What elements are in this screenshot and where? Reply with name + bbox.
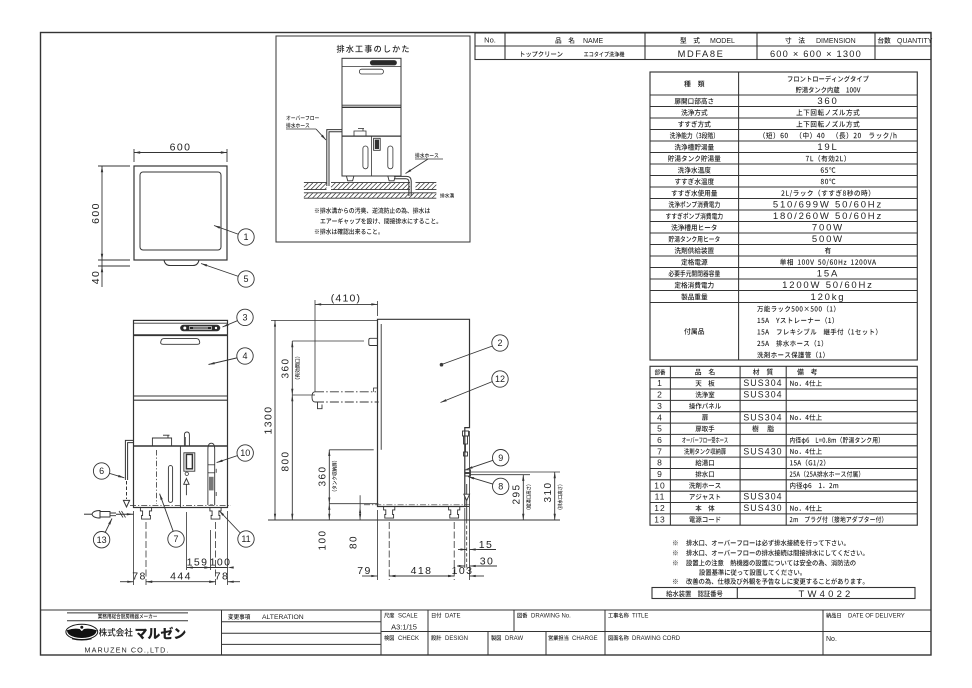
svg-text:360: 360 [318,466,329,487]
maruzen logo block [67,612,188,614]
front pump window [184,453,195,471]
side drain down arrow [466,484,468,520]
svg-text:SUS304: SUS304 [743,390,782,400]
svg-text:QUANTITY: QUANTITY [897,38,933,45]
front top bracket [152,438,171,446]
svg-text:TW4022: TW4022 [798,589,853,600]
svg-text:SUS430: SUS430 [743,446,782,456]
dim 40 [101,260,103,287]
front dims 78/444/78 [133,511,135,585]
maruzen oval face logo [66,624,98,639]
title block [41,609,932,611]
plan view inner panel [140,172,221,250]
front door bottom lines [134,395,228,397]
front right pipe assembly [208,443,215,505]
svg-text:12: 12 [495,374,505,384]
svg-text:MODEL: MODEL [710,38,735,45]
balloon 8 [468,477,501,487]
svg-text:2: 2 [497,338,502,348]
balloon 11 [219,511,246,540]
svg-text:295: 295 [512,484,523,505]
balloon 12 [441,382,493,403]
svg-text:80: 80 [349,535,360,549]
balloon 9 [467,458,501,470]
side door hook [318,402,323,409]
mini door bottom lines [342,104,401,106]
svg-text:MARUZEN CO.,LTD.: MARUZEN CO.,LTD. [85,646,170,655]
front door handle [161,339,200,345]
dim 600 left [98,165,130,167]
mini top bracket [354,131,366,136]
svg-text:3: 3 [657,401,663,411]
specification table [650,72,917,360]
svg-text:CHECK: CHECK [398,636,419,642]
svg-text:7: 7 [173,534,178,544]
balloon 4 [209,356,246,365]
svg-text:3: 3 [242,313,247,323]
svg-text:19L: 19L [817,142,838,153]
notes [673,540,678,545]
front dims 159/100 [186,512,188,570]
svg-text:ALTERATION: ALTERATION [262,614,304,621]
svg-text:SUS304: SUS304 [743,412,782,422]
svg-text:No.: No. [826,636,837,643]
svg-text:600 × 600 × 1300: 600 × 600 × 1300 [770,49,862,59]
balloon 6 [102,471,125,478]
svg-text:100: 100 [318,530,329,551]
svg-text:15: 15 [479,539,493,551]
side bottom chain line [364,504,470,506]
mini drain pipe [394,176,411,190]
svg-text:15A: 15A [817,269,839,280]
mini overflow hose [327,130,342,186]
front feet [140,508,151,520]
svg-text:A3:1/15: A3:1/15 [391,623,417,632]
svg-text:444: 444 [170,571,192,583]
dims 15/30 [464,508,466,568]
svg-text:12: 12 [654,503,665,513]
svg-text:78: 78 [132,571,146,583]
svg-text:30: 30 [480,555,494,567]
svg-text:8: 8 [498,482,503,492]
svg-text:SCALE: SCALE [398,614,418,620]
balloon 7 [160,494,176,539]
svg-text:CHARGE: CHARGE [572,636,598,642]
svg-text:DRAW: DRAW [505,636,523,642]
front handle slot [168,466,172,503]
svg-text:5: 5 [243,274,248,284]
svg-text:TITLE: TITLE [632,614,648,620]
svg-text:SUS304: SUS304 [743,492,782,502]
side feet [384,507,395,519]
floor hatch lower band [304,193,436,198]
svg-text:(410): (410) [331,293,362,305]
floor hatch upper band [304,183,327,190]
side view body [378,319,470,506]
front left door centerline [155,450,157,504]
balloon 1 [214,226,246,238]
mini cabinet doors [370,136,372,176]
drain instruction box [276,36,470,242]
power cord and plug [116,513,134,515]
side opening top line [292,340,364,342]
side recess fittings [463,431,469,436]
plan view bottom tab [164,260,199,266]
svg-text:310: 310 [543,482,554,503]
svg-text:360: 360 [817,96,838,107]
svg-text:DRAWING No.: DRAWING No. [531,614,571,620]
front riser pipe [184,432,189,446]
svg-text:DIMENSION: DIMENSION [816,38,856,45]
parts table [650,366,917,525]
header table (name/model/dimension) [475,33,931,60]
svg-text:13: 13 [654,514,665,524]
svg-text:10: 10 [654,480,665,490]
dim 600 top [133,149,135,162]
svg-text:11: 11 [241,534,250,544]
side door catch right [374,388,378,392]
balloon 13 [102,519,112,540]
svg-text:418: 418 [411,565,433,577]
front thick divider [134,334,228,336]
svg-text:13: 13 [97,535,107,545]
front bottom chain line [130,504,231,506]
svg-text:1300: 1300 [263,406,275,435]
svg-text:103: 103 [452,565,474,577]
svg-text:2: 2 [657,390,663,400]
svg-text:800: 800 [281,451,292,472]
dim 360 tank door [329,449,373,451]
svg-text:1: 1 [243,232,248,242]
svg-text:1: 1 [657,378,663,388]
dim 360 opening [292,394,315,396]
side open door band [315,391,376,393]
svg-text:MDFA8E: MDFA8E [678,49,725,59]
mini door handle [359,69,383,74]
svg-text:DATE OF DELIVERY: DATE OF DELIVERY [848,614,905,620]
front view body [134,320,228,507]
svg-text:9: 9 [657,469,663,479]
side bottom dims 79/418/103 [377,510,379,580]
side drain stub [465,470,471,473]
dim 100 [328,504,330,520]
dim 800 [291,395,293,520]
drain hose label [415,153,438,158]
svg-text:120kg: 120kg [811,292,846,303]
svg-text:4: 4 [242,351,247,361]
side door edge strip [380,324,382,450]
dim (410) [314,300,316,392]
dim 310 [554,472,556,520]
svg-text:8: 8 [657,458,663,468]
front control panel [181,325,220,331]
front up arrow [185,484,187,495]
side ext lines 295/310 [471,471,561,473]
svg-text:600: 600 [90,202,102,224]
svg-text:SUS304: SUS304 [743,378,782,388]
balloon 3 [223,317,246,327]
drain box notes [315,207,430,213]
svg-text:NAME: NAME [583,38,604,45]
svg-text:7: 7 [657,446,663,456]
svg-text:78: 78 [215,571,229,583]
svg-text:40: 40 [90,270,102,284]
svg-text:5: 5 [657,424,663,434]
mini cabinet top [342,135,401,137]
svg-text:79: 79 [357,565,371,577]
svg-text:DESIGN: DESIGN [445,636,468,642]
balloon 2 [443,346,493,364]
svg-text:6: 6 [657,435,663,445]
dim 80 [359,495,361,520]
svg-text:9: 9 [498,453,503,463]
svg-text:700W: 700W [812,223,844,234]
svg-text:510/699W 50/60Hz: 510/699W 50/60Hz [773,200,883,211]
overflow hose label [286,115,319,120]
plan view outer square [134,166,227,260]
floor line [268,519,560,521]
svg-text:500W: 500W [812,234,844,245]
svg-text:SUS430: SUS430 [743,503,782,513]
front overflow hose [125,440,133,480]
svg-text:DATE: DATE [445,614,461,620]
svg-text:6: 6 [99,466,104,476]
side latch tab [369,338,378,345]
mini machine body [342,58,401,176]
water certification box TW4022 [652,588,915,599]
dim 1300 [271,319,378,321]
balloon 10 [217,453,246,463]
svg-text:10: 10 [240,448,250,458]
drain trench label [440,193,454,198]
svg-text:DRAWING CORD: DRAWING CORD [632,636,681,642]
svg-text:4: 4 [657,412,663,422]
svg-text:600: 600 [170,141,192,153]
svg-text:11: 11 [655,492,666,502]
mini control panel [370,61,396,66]
svg-text:180/260W 50/60Hz: 180/260W 50/60Hz [773,211,883,222]
svg-text:100: 100 [210,556,232,568]
front cabinet top [134,445,228,447]
mini feet [346,176,354,181]
svg-text:1200W 50/60Hz: 1200W 50/60Hz [782,280,874,291]
svg-text:159: 159 [187,556,209,568]
dim 295 [522,475,524,520]
front cabinet divider [179,446,181,508]
balloon 5 [201,264,246,280]
svg-text:360: 360 [281,358,292,379]
svg-text:No.: No. [484,36,496,45]
